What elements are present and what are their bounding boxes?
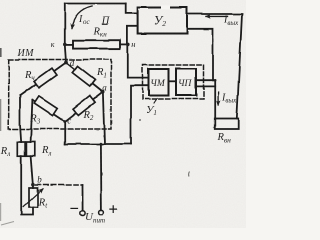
junction at Rvn wire: [214, 79, 216, 81]
left edge smudge 2: [0, 99, 2, 131]
speck 2: [188, 172, 191, 177]
resistor R3: [34, 96, 57, 115]
resistor Rkn lead right: [120, 43, 128, 45]
left edge smudge 1: [0, 48, 2, 57]
bridge arm d to left corner: [20, 63, 66, 96]
wire down to Rvn left: [214, 80, 216, 118]
resistor Rl right: [26, 142, 34, 156]
plus sign: [110, 206, 117, 213]
current arrow I_vyh top: [207, 15, 228, 17]
resistor R1: [72, 66, 95, 86]
current arrow I_os curved: [72, 6, 93, 28]
resistor R4: [34, 68, 57, 88]
resistor Rvn: [215, 119, 238, 130]
bottom-left streak: [1, 222, 14, 226]
wire R3 end down: [31, 100, 33, 142]
amplifier U1 dashed box: [143, 65, 204, 100]
terminal minus: [80, 211, 85, 216]
speck 1: [139, 119, 141, 121]
node n: [126, 43, 130, 47]
op-amp U2 box: [138, 8, 187, 34]
resistor Rkn lead left: [65, 43, 73, 45]
bridge arm d to a: [66, 63, 103, 92]
Rt arrow: [23, 189, 42, 207]
node c: [63, 120, 66, 123]
resistor Rl left: [17, 142, 25, 156]
current arrow I_vyh bottom: [218, 92, 220, 105]
node d: [64, 61, 68, 65]
wire left Rl down and to Rt bottom: [21, 156, 33, 215]
junction at plus wire: [100, 143, 103, 146]
wire U2 output top to right rail: [187, 14, 242, 119]
scan fade on U2 box top edge: [161, 5, 170, 9]
block ChP: [176, 69, 196, 96]
wire ChP output 2: [196, 85, 215, 87]
measuring bridge IM dashed box: [9, 60, 111, 130]
wire to U2 input 1: [126, 4, 138, 14]
bridge arm a to c: [65, 92, 103, 122]
node k: [63, 43, 67, 47]
wire ChM-ChP connector: [169, 80, 177, 82]
U1 label tick: [154, 99, 157, 104]
wire bottom horizontal: [65, 143, 131, 145]
wire U2 output bottom: [187, 29, 215, 81]
terminal plus: [99, 210, 104, 215]
wire top horizontal: [65, 3, 126, 5]
node b: [31, 183, 35, 187]
wire node b to Rt top: [32, 184, 34, 188]
thermometer Rt: [29, 188, 38, 208]
speck 4: [30, 170, 31, 171]
resistor Rkn: [73, 40, 120, 48]
wire right Rl to node b: [31, 156, 33, 184]
wire node c down: [64, 122, 66, 145]
left edge smudge 3: [0, 203, 2, 221]
wire top-left vertical (feedback line): [65, 4, 66, 63]
wire node a down: [103, 93, 105, 145]
block ChM: [149, 69, 169, 96]
wire node n down to U1 input 1: [128, 44, 149, 77]
wire down to minus terminal: [82, 185, 84, 211]
wire node n to U2 input 2: [127, 26, 138, 44]
minus sign: [71, 207, 78, 209]
speck 3: [213, 127, 214, 128]
resistor R2: [73, 95, 96, 115]
wire bridge left corner down: [20, 96, 21, 143]
wire to plus terminal: [100, 144, 103, 210]
wire U1 input 2 from bridge node a: [131, 85, 149, 144]
node a: [101, 90, 105, 94]
wire dashed from b to minus terminal: [36, 184, 83, 186]
wire ChP output 1: [196, 79, 215, 81]
bridge arm R3 left end to c: [32, 100, 64, 121]
scan noise overlay: [0, 0, 1, 1]
